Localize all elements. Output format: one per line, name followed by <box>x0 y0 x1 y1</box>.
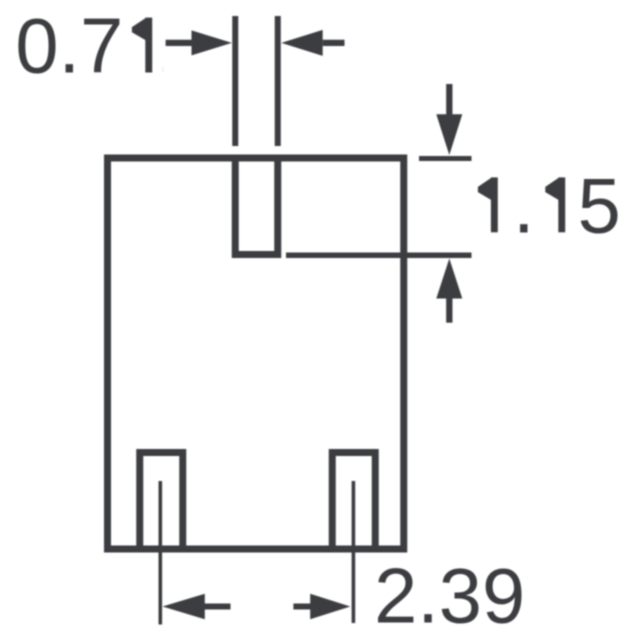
top lead (tab) upper-right line <box>275 16 281 146</box>
mask footed 1 of 0.71 <box>120 8 163 80</box>
custom first digit 1 of 1.15 (flag) <box>478 177 492 200</box>
custom second digit 1 of 1.15 (stem) <box>558 177 565 232</box>
dim 2.39 right arrowhead <box>310 594 350 619</box>
dim 0.71 right arrowhead <box>281 30 322 56</box>
custom digit 1 of 0.71 (stem) <box>145 18 152 73</box>
dim 2.39 right lead centerline <box>352 481 356 623</box>
dim 0.71 right arrow tail <box>323 40 345 46</box>
dim 2.39 left lead centerline <box>159 481 163 625</box>
svg-text:2.39: 2.39 <box>374 553 525 639</box>
package body outline <box>108 158 404 549</box>
dim 1.15 down arrowhead <box>436 114 462 155</box>
dim 2.39 left arrow tail <box>203 604 231 610</box>
dim 1.15 down arrow tail <box>446 84 452 117</box>
dim 1.15 upper extension line <box>419 156 472 161</box>
top lead (tab) upper-left line <box>232 16 238 146</box>
mask first footed 1 of 1.15 <box>464 168 516 240</box>
dim 1.15 up arrowhead <box>436 259 462 299</box>
dim 0.71 left arrow tail <box>166 40 195 46</box>
mask second footed 1 of 1.15 <box>531 168 578 240</box>
dim 2.39 right arrow tail <box>293 604 311 610</box>
dim 1.15 up arrow tail <box>446 296 452 323</box>
top lead (tab) notch inside body <box>235 159 278 255</box>
custom first digit 1 of 1.15 (stem) <box>491 177 498 232</box>
bottom-right lead outline <box>332 453 375 550</box>
custom second digit 1 of 1.15 (flag) <box>545 177 559 200</box>
dim 1.15 lower extension line <box>286 252 472 258</box>
dim 2.39 left arrowhead <box>163 594 205 619</box>
dim 0.71 left arrowhead <box>192 30 232 55</box>
custom digit 1 of 0.71 (flag) <box>132 18 146 41</box>
bottom-left lead outline <box>140 453 183 550</box>
